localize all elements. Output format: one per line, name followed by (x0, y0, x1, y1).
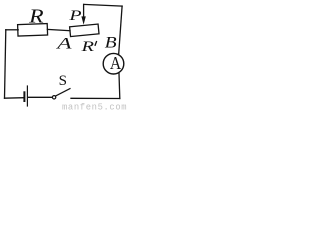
resistor R box (18, 24, 48, 36)
switch lever (56, 89, 70, 96)
wire right vertical upper (119, 6, 122, 54)
wire resistor to rheostat (47, 29, 70, 30)
wiper arrowhead (81, 16, 85, 24)
svg-text:R: R (80, 39, 94, 55)
battery positive plate (tall thin) (26, 86, 28, 106)
svg-text:manfen5.com: manfen5.com (62, 102, 127, 110)
svg-text:A: A (110, 53, 121, 73)
wire left vertical (5, 30, 6, 98)
battery negative plate (short thick) (23, 92, 25, 101)
wire left stub to resistor (6, 29, 18, 31)
switch pivot circle (52, 96, 55, 99)
wire right vertical lower (118, 74, 121, 99)
svg-text:A: A (56, 34, 72, 52)
wire bottom right (71, 97, 120, 99)
svg-text:R: R (28, 7, 44, 28)
svg-text:S: S (59, 73, 67, 89)
label R' prime tick (95, 41, 97, 46)
svg-text:B: B (105, 33, 117, 51)
ammeter U1 circle (103, 53, 124, 74)
wire top (84, 4, 122, 6)
wire battery to switch (28, 96, 52, 98)
wire bottom left to battery (5, 97, 24, 100)
rheostat R' box (70, 24, 99, 36)
wiper stem wire P (83, 4, 85, 18)
svg-text:P: P (68, 8, 82, 24)
